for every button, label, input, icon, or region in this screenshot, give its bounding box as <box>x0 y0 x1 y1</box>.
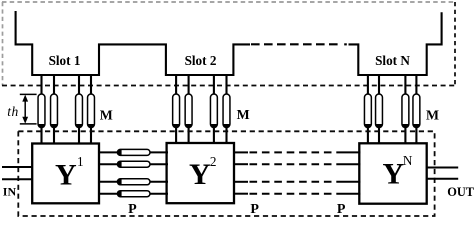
wire element P1 to Y2 port 1 <box>150 151 168 153</box>
svg-text:OUT: OUT <box>447 185 474 199</box>
element M1 (slot 1) body <box>38 94 45 128</box>
wire element M2 (slot N) to block <box>378 128 380 145</box>
element M1 (slot 2) dark cap <box>173 124 180 128</box>
waveguide comb outline: Slot N notch and right terminal <box>349 12 442 75</box>
element M4 (slot N) body <box>413 94 420 128</box>
wire dashed continuation row 4 <box>250 193 341 195</box>
wire element P2 to Y2 port 2 <box>150 163 168 165</box>
block Y2 <box>167 143 234 203</box>
wire slot feed down to element M1 (slot 1) <box>40 74 42 96</box>
wire element P3 to Y2 port 3 <box>150 181 168 183</box>
wire slot feed down to element M3 (slot N) <box>404 74 406 96</box>
element M4 (slot N) dark cap <box>413 124 420 128</box>
element P3 dark cap <box>117 179 121 185</box>
element P2 body <box>117 161 150 167</box>
input wire upper <box>2 166 33 168</box>
svg-text:1: 1 <box>77 154 84 169</box>
element M4 (slot 2) dark cap <box>223 124 230 128</box>
wire element M3 (slot N) to block <box>404 128 406 145</box>
wire element P4 to Y2 port 4 <box>150 193 168 195</box>
wire slot feed down to element M2 (slot N) <box>378 74 380 96</box>
wire Y1 port 1 to element P1 <box>98 151 119 153</box>
element M2 (slot 1) dark cap <box>51 124 58 128</box>
wire slot feed down to element M4 (slot 1) <box>90 74 92 96</box>
output wire lower <box>426 178 458 180</box>
enclosure dashed box right edge <box>454 2 456 86</box>
svg-text:IN: IN <box>3 184 17 198</box>
input wire lower <box>2 178 33 180</box>
element P4 body <box>117 191 150 197</box>
svg-text:th: th <box>7 104 18 119</box>
wire element M2 (slot 1) to block <box>53 128 55 145</box>
waveguide dot of dash-dot pattern <box>344 43 347 45</box>
element M3 (slot N) dark cap <box>402 124 409 128</box>
wire Y2 port 2 solid stub <box>233 163 248 165</box>
wire slot feed down to element M1 (slot 2) <box>175 74 177 96</box>
wire element M4 (slot N) to block <box>415 128 417 145</box>
block Y1 <box>32 144 99 204</box>
svg-text:P: P <box>250 202 259 217</box>
wire Y1 port 3 to element P3 <box>98 181 119 183</box>
wire YN port 2 solid stub <box>340 163 361 165</box>
wire slot feed down to element M4 (slot N) <box>415 74 417 96</box>
element M3 (slot 1) body <box>76 94 83 128</box>
wire element M1 (slot 1) to block <box>40 128 42 145</box>
wire Y2 port 3 solid stub <box>233 181 248 183</box>
element M1 (slot 1) dark cap <box>38 124 45 128</box>
element M2 (slot N) body <box>376 94 383 128</box>
wire Y1 port 4 to element P4 <box>98 193 119 195</box>
element P1 body <box>117 149 150 155</box>
wire slot feed down to element M3 (slot 2) <box>213 74 215 96</box>
element M4 (slot 1) body <box>88 94 95 128</box>
wire slot feed down to element M4 (slot 2) <box>225 74 227 96</box>
output wire upper <box>426 167 458 169</box>
wire element M2 (slot 2) to block <box>188 128 190 145</box>
wire Y2 port 4 solid stub <box>233 193 248 195</box>
element P4 dark cap <box>117 191 121 197</box>
wire YN port 1 solid stub <box>340 151 361 153</box>
waveguide comb outline: left terminal, Slot 1 and Slot 2 notches <box>16 11 250 75</box>
element M2 (slot 2) body <box>185 94 192 128</box>
block YN <box>359 143 426 203</box>
svg-text:N: N <box>403 153 413 168</box>
element M4 (slot 1) dark cap <box>88 124 95 128</box>
element M4 (slot 2) body <box>223 94 230 128</box>
wire slot feed down to element M2 (slot 2) <box>188 74 190 96</box>
svg-text:M: M <box>100 108 113 123</box>
element M3 (slot 1) dark cap <box>76 124 83 128</box>
wire dashed continuation row 2 <box>250 163 341 165</box>
element M2 (slot N) dark cap <box>376 124 383 128</box>
element P1 dark cap <box>117 149 121 155</box>
svg-text:M: M <box>237 107 250 122</box>
svg-text:Slot 2: Slot 2 <box>185 53 217 68</box>
wire slot feed down to element M1 (slot N) <box>367 74 369 96</box>
th dimension double-headed arrow <box>22 95 28 124</box>
element M1 (slot N) body <box>364 94 371 128</box>
element M3 (slot N) body <box>402 94 409 128</box>
wire element M3 (slot 1) to block <box>78 128 80 145</box>
waveguide dash-dot continuation wire <box>251 43 341 45</box>
svg-text:P: P <box>337 202 346 217</box>
svg-text:M: M <box>426 107 439 122</box>
wire slot feed down to element M2 (slot 1) <box>53 74 55 96</box>
enclosure dashed box bottom edge <box>2 85 455 87</box>
svg-text:Y: Y <box>383 158 405 191</box>
enclosure dashed box top edge <box>2 1 455 3</box>
svg-text:Slot 1: Slot 1 <box>49 53 81 68</box>
element M1 (slot 2) body <box>173 94 180 128</box>
element P3 body <box>117 179 150 185</box>
wire YN port 3 solid stub <box>340 181 361 183</box>
wire dashed continuation row 1 <box>250 151 341 153</box>
th dimension bottom tick <box>20 123 37 125</box>
wire element M1 (slot 2) to block <box>175 128 177 145</box>
element M2 (slot 2) dark cap <box>185 124 192 128</box>
element M2 (slot 1) body <box>51 94 58 128</box>
enclosure dashed box left edge <box>2 2 4 86</box>
element P2 dark cap <box>117 161 121 167</box>
th dimension top tick <box>20 93 37 95</box>
wire element M3 (slot 2) to block <box>213 128 215 145</box>
wire element M4 (slot 1) to block <box>90 128 92 145</box>
wire Y1 port 2 to element P2 <box>98 163 119 165</box>
element M3 (slot 2) dark cap <box>210 124 217 128</box>
svg-text:2: 2 <box>210 154 217 169</box>
svg-text:Y: Y <box>189 158 211 191</box>
network dashed box <box>18 131 434 216</box>
wire element M4 (slot 2) to block <box>225 128 227 145</box>
element M1 (slot N) dark cap <box>364 124 371 128</box>
svg-text:Slot N: Slot N <box>375 53 410 68</box>
wire YN port 4 solid stub <box>340 193 361 195</box>
svg-text:P: P <box>128 202 137 217</box>
svg-text:Y: Y <box>55 158 77 191</box>
wire Y2 port 1 solid stub <box>233 151 248 153</box>
wire dashed continuation row 3 <box>250 181 341 183</box>
element M3 (slot 2) body <box>210 94 217 128</box>
wire slot feed down to element M3 (slot 1) <box>78 74 80 96</box>
wire element M1 (slot N) to block <box>367 128 369 145</box>
